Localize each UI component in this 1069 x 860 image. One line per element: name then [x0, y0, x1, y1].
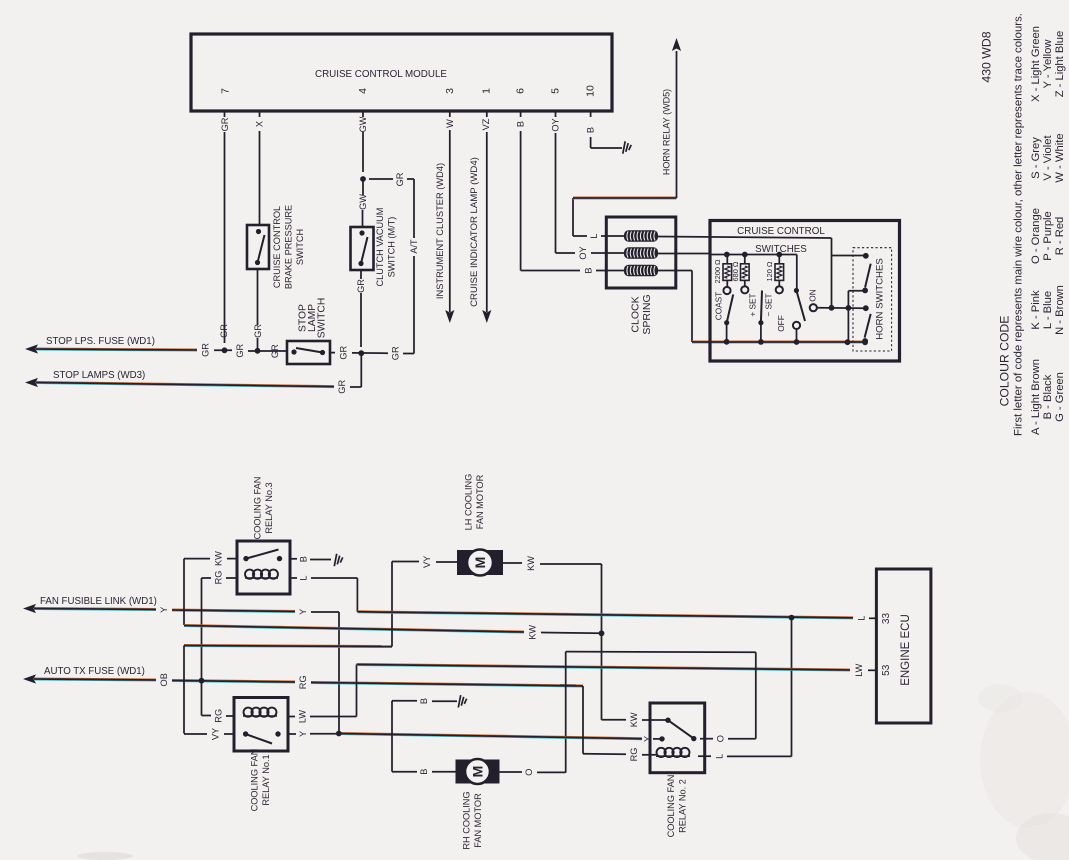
- colour code entry B: [1042, 374, 1054, 419]
- svg-text:OY: OY: [551, 118, 561, 131]
- clock spring box: [606, 217, 676, 288]
- svg-text:Y - Yellow: Y - Yellow: [1042, 39, 1054, 89]
- smudge bottom left: [77, 852, 133, 860]
- LH cooling fan motor M1: [457, 550, 503, 576]
- wire Y relay2 left: [653, 738, 662, 740]
- svg-text:SWITCH (M/T): SWITCH (M/T): [386, 217, 396, 278]
- resistor 120 ohm: [765, 255, 784, 282]
- svg-text:First letter of code represent: First letter of code represents main wir…: [1013, 13, 1025, 436]
- svg-text:LW: LW: [854, 663, 864, 676]
- svg-text:Y: Y: [643, 736, 653, 742]
- svg-text:RG: RG: [214, 709, 224, 723]
- svg-text:N - Brown: N - Brown: [1054, 285, 1066, 335]
- RH cooling fan motor M2: [456, 759, 500, 784]
- svg-text:L: L: [715, 754, 725, 759]
- svg-text:7: 7: [220, 88, 232, 94]
- module pin 3: [444, 88, 456, 94]
- junction node stop line clutch wire: [358, 350, 364, 356]
- svg-text:GW: GW: [358, 194, 368, 210]
- label cooling fan relay No.3: [252, 477, 274, 540]
- node top rail R1: [724, 252, 730, 258]
- wire L branch to relay2 coil: [698, 618, 792, 759]
- wire on line: [817, 307, 866, 310]
- wire LW relay1 coil right: [288, 710, 357, 723]
- wire OY row top rail: [658, 254, 797, 291]
- ground relay3: [334, 554, 342, 566]
- svg-text:B: B: [586, 127, 596, 133]
- svg-text:B: B: [419, 769, 429, 775]
- label instrument cluster: [435, 163, 445, 299]
- label clutch vacuum switch: [375, 208, 397, 287]
- wire B RH motor to ground branch: [392, 701, 456, 775]
- svg-text:FAN MOTOR: FAN MOTOR: [475, 474, 485, 529]
- svg-text:RELAY No.1: RELAY No.1: [261, 754, 271, 805]
- wire Y line relay1 to relay2: [336, 731, 642, 740]
- svg-text:GR: GR: [219, 324, 229, 338]
- svg-text:VY: VY: [211, 728, 221, 740]
- svg-text:GR: GR: [235, 343, 245, 357]
- svg-text:L: L: [589, 233, 599, 238]
- colour code entry O: [1030, 208, 1042, 264]
- wire GW from pin 4: [358, 111, 368, 172]
- svg-text:VY: VY: [422, 556, 432, 568]
- node bottom rail set: [758, 339, 764, 345]
- cruise control switches box: [710, 221, 900, 362]
- wire B from pin 6 to clock spring: [516, 111, 624, 274]
- wire VY to LH motor: [392, 556, 457, 568]
- colour code entry A: [1030, 359, 1042, 435]
- svg-text:O - Orange: O - Orange: [1030, 208, 1042, 264]
- off switch: [793, 288, 805, 342]
- svg-text:GW: GW: [358, 116, 368, 132]
- wire below brake switch: [253, 269, 263, 351]
- svg-text:CLOCK: CLOCK: [629, 296, 641, 332]
- colour code entry W: [1054, 133, 1066, 182]
- svg-text:COAST: COAST: [714, 292, 724, 321]
- colour code entry Y: [1042, 39, 1054, 89]
- set switch blade: [758, 291, 763, 343]
- svg-text:GR: GR: [337, 380, 347, 394]
- svg-text:Y: Y: [298, 609, 308, 615]
- svg-text:3: 3: [444, 88, 456, 94]
- svg-text:KW: KW: [629, 712, 639, 727]
- label stop lamp switch: [297, 298, 327, 339]
- set switch terminal 680: [741, 280, 748, 293]
- svg-text:X: X: [255, 121, 265, 127]
- wire RG relay1 coil left: [202, 709, 235, 723]
- wire KW line relay3 to junction: [184, 624, 602, 639]
- svg-text:B: B: [299, 556, 309, 562]
- horn switch 2: [862, 314, 871, 344]
- wire KW relay3 left: [184, 551, 237, 625]
- label engine ecu: [900, 614, 912, 686]
- cruise control module U1: [191, 34, 612, 111]
- svg-text:5: 5: [550, 88, 562, 94]
- svg-text:B: B: [419, 698, 429, 704]
- node bottom rail horn column: [845, 339, 851, 345]
- svg-text:B - Black: B - Black: [1042, 374, 1054, 419]
- svg-text:SWITCH: SWITCH: [295, 229, 305, 265]
- relay2 coil: [656, 748, 690, 757]
- ground for pin 10: [623, 141, 631, 153]
- svg-text:M: M: [470, 766, 486, 778]
- wire GR from pin 7: [220, 111, 230, 343]
- label Y relay2: [643, 736, 653, 742]
- label cruise control brake pressure switch: [272, 205, 305, 289]
- module pin 4: [357, 88, 369, 94]
- node on line at horn elbow: [846, 305, 852, 311]
- svg-text:HORN SWITCHES: HORN SWITCHES: [875, 258, 886, 340]
- svg-text:SWITCH: SWITCH: [317, 298, 328, 339]
- svg-text:− SET: − SET: [764, 293, 774, 316]
- svg-text:BRAKE PRESSURE: BRAKE PRESSURE: [284, 205, 294, 289]
- auto tx fuse line WD1: [23, 666, 583, 689]
- colour code entry Z: [1054, 31, 1066, 98]
- label GR lower pin7 wire: [219, 324, 229, 338]
- clock spring coil 3: [624, 265, 658, 277]
- clutch vacuum switch S2: [351, 227, 374, 270]
- svg-text:CRUISE CONTROL: CRUISE CONTROL: [737, 226, 825, 237]
- wire B relay3 right to ground: [290, 556, 331, 562]
- wire O from RH motor: [500, 769, 566, 776]
- svg-text:K - Pink: K - Pink: [1030, 290, 1042, 330]
- wire L relay3 coil right: [290, 575, 357, 611]
- svg-text:S - Grey: S - Grey: [1030, 137, 1042, 179]
- ground RH branch: [458, 695, 466, 707]
- colour code entry L: [1042, 291, 1054, 329]
- svg-text:GR: GR: [395, 172, 405, 186]
- svg-text:OY: OY: [578, 246, 588, 259]
- svg-text:430 WD8: 430 WD8: [980, 31, 994, 82]
- label off: [776, 315, 786, 332]
- svg-text:FAN FUSIBLE LINK (WD1): FAN FUSIBLE LINK (WD1): [40, 596, 157, 607]
- svg-text:L: L: [299, 575, 309, 580]
- svg-text:OFF: OFF: [776, 315, 786, 332]
- node horn switch 2 top: [863, 305, 869, 311]
- instrument cluster arrow W: [445, 111, 455, 323]
- cooling fan relay No.1 box K1: [234, 698, 288, 752]
- label RH cooling fan motor: [461, 791, 483, 849]
- clock spring coil 1: [624, 230, 658, 242]
- svg-text:53: 53: [881, 664, 892, 676]
- wire L clock spring to horn relay: [573, 197, 677, 239]
- svg-text:ENGINE ECU: ENGINE ECU: [900, 614, 912, 686]
- svg-text:KW: KW: [214, 551, 224, 566]
- label horn relay: [662, 89, 672, 175]
- module pin 5: [550, 88, 562, 94]
- svg-text:Y: Y: [159, 607, 169, 613]
- svg-text:RG: RG: [214, 571, 224, 585]
- title cruise control switches: [737, 226, 825, 255]
- cruise indicator lamp arrow VZ: [481, 111, 491, 323]
- label cooling fan relay No.1: [249, 749, 271, 812]
- relay3 coil: [245, 570, 278, 579]
- svg-text:LW: LW: [298, 710, 308, 723]
- wire to horn switch 1: [832, 253, 869, 259]
- svg-text:SPRING: SPRING: [641, 294, 653, 334]
- label horn switches: [875, 258, 886, 340]
- svg-text:X - Light Green: X - Light Green: [1030, 26, 1042, 102]
- relay1 switch: [243, 731, 281, 743]
- wire Y relay1 right: [288, 731, 339, 737]
- junction node on stop line at brake switch wire: [255, 348, 261, 354]
- clock spring coil 2: [624, 247, 658, 259]
- svg-text:GR: GR: [220, 117, 230, 131]
- wire B pin 10 to ground: [586, 111, 622, 148]
- label cooling fan relay No.2: [666, 775, 688, 838]
- wire RG column relay3 to relay1: [201, 578, 203, 716]
- label +set: [748, 293, 758, 316]
- svg-text:KW: KW: [528, 625, 538, 640]
- svg-text:G - Green: G - Green: [1054, 372, 1066, 422]
- svg-text:GR: GR: [201, 343, 211, 357]
- svg-text:P - Purple: P - Purple: [1042, 211, 1054, 261]
- svg-text:L: L: [857, 616, 867, 621]
- svg-text:CRUISE CONTROL: CRUISE CONTROL: [272, 206, 282, 288]
- svg-text:L - Blue: L - Blue: [1042, 291, 1054, 329]
- colour code heading: [998, 316, 1012, 407]
- svg-text:R - Red: R - Red: [1054, 217, 1066, 256]
- svg-text:OB: OB: [159, 673, 169, 686]
- svg-text:GR: GR: [339, 345, 349, 359]
- svg-text:V - Violet: V - Violet: [1042, 135, 1054, 181]
- svg-text:COOLING FAN: COOLING FAN: [252, 477, 262, 540]
- junction GW node: [360, 176, 366, 182]
- colour code entry R: [1054, 217, 1066, 256]
- module pin 7: [220, 88, 232, 94]
- module pin 6: [515, 88, 527, 94]
- node top rail R2: [742, 252, 748, 258]
- svg-text:A - Light Brown: A - Light Brown: [1030, 359, 1042, 435]
- svg-text:CLUTCH VACUUM: CLUTCH VACUUM: [375, 208, 385, 287]
- colour code entry V: [1042, 135, 1054, 181]
- relay3 switch: [243, 550, 282, 562]
- wire RG relay3 coil left: [202, 571, 238, 585]
- wire B ground branch top: [392, 698, 457, 704]
- junction node on stop line at GR wire: [222, 347, 228, 353]
- coast switch terminal: [723, 280, 730, 294]
- svg-text:6: 6: [515, 88, 527, 94]
- label 430 WD8: [980, 31, 994, 82]
- wire O line RH motor to relay2: [566, 652, 756, 773]
- relay1 coil: [243, 708, 277, 717]
- svg-text:COOLING FAN: COOLING FAN: [249, 749, 259, 812]
- svg-text:INSTRUMENT CLUSTER (WD4): INSTRUMENT CLUSTER (WD4): [435, 163, 445, 299]
- svg-text:RG: RG: [629, 748, 639, 762]
- relay2 switch: [659, 718, 696, 742]
- svg-text:GR: GR: [391, 346, 401, 360]
- wire LW line to engine ecu: [357, 663, 877, 716]
- resistor 680 ohm: [731, 255, 749, 282]
- svg-text:O: O: [524, 769, 534, 776]
- wire OY from pin 5 to clock spring: [551, 111, 625, 260]
- coast switch blade: [724, 295, 733, 343]
- svg-text:COOLING FAN: COOLING FAN: [666, 775, 676, 838]
- wire X from module: [255, 111, 265, 225]
- stop lps fuse feed line WD1: [25, 336, 414, 360]
- texture bottom right: [978, 684, 1069, 860]
- svg-text:W: W: [445, 119, 455, 128]
- colour code entry G: [1054, 372, 1066, 422]
- wire L line to engine ecu: [357, 611, 876, 621]
- svg-text:W - White: W - White: [1054, 133, 1066, 182]
- colour code entry K: [1030, 290, 1042, 330]
- label clock spring: [629, 294, 653, 334]
- module pin 10: [585, 85, 597, 97]
- svg-text:COLOUR CODE: COLOUR CODE: [998, 316, 1012, 407]
- svg-text:RELAY No. 2: RELAY No. 2: [677, 779, 687, 833]
- label -set: [764, 293, 774, 316]
- wire KW relay2 left: [602, 712, 669, 727]
- svg-text:RH COOLING: RH COOLING: [461, 791, 471, 849]
- svg-text:CRUISE INDICATOR LAMP (WD4): CRUISE INDICATOR LAMP (WD4): [469, 157, 480, 307]
- junction KW node: [599, 630, 605, 636]
- wire horn switch 1 pole: [848, 291, 865, 342]
- svg-text:HORN RELAY (WD5): HORN RELAY (WD5): [662, 89, 672, 175]
- svg-text:33: 33: [881, 613, 892, 625]
- colour code subtitle: [1013, 13, 1025, 436]
- stop lamps line WD3: [25, 353, 361, 393]
- wire B row to bottom rail: [658, 271, 865, 344]
- svg-text:GR: GR: [270, 344, 280, 358]
- wire VY relay1 left: [184, 728, 234, 740]
- junction L node: [789, 615, 795, 621]
- colour code entry N: [1054, 285, 1066, 335]
- cooling fan relay No.3 box K3: [237, 541, 290, 594]
- junction auto tx at RG column: [199, 678, 205, 684]
- svg-text:VZ: VZ: [481, 118, 491, 130]
- svg-text:680 Ω: 680 Ω: [731, 261, 740, 281]
- node bottom rail off: [794, 339, 800, 345]
- set switch terminal 120: [776, 280, 783, 293]
- node on line at L column: [829, 305, 835, 311]
- wire VY line: [184, 562, 392, 734]
- colour code entry P: [1042, 211, 1054, 261]
- wire RG relay2 coil left: [560, 685, 656, 761]
- cruise control brake pressure switch S1: [247, 225, 269, 269]
- engine ecu box U2: [876, 569, 931, 723]
- svg-text:KW: KW: [526, 556, 536, 571]
- svg-text:B: B: [584, 267, 594, 273]
- svg-text:FAN MOTOR: FAN MOTOR: [473, 793, 483, 848]
- svg-text:Y: Y: [298, 731, 308, 737]
- ecu pin 53: [881, 664, 892, 676]
- svg-text:GR: GR: [253, 324, 263, 338]
- svg-text:RELAY No.3: RELAY No.3: [264, 482, 274, 533]
- stop lamp switch S3: [287, 341, 330, 364]
- resistor 2200 ohm: [713, 255, 732, 284]
- wire GR below clutch switch: [356, 270, 366, 347]
- horn relay arrow WD5: [672, 38, 681, 198]
- node bottom rail end: [862, 339, 868, 345]
- ecu pin 33: [881, 613, 892, 625]
- node top rail R3: [776, 252, 782, 258]
- horn switch 1: [862, 264, 871, 294]
- svg-text:STOP LPS. FUSE (WD1): STOP LPS. FUSE (WD1): [46, 336, 155, 347]
- svg-text:4: 4: [357, 88, 369, 94]
- svg-text:Z - Light Blue: Z - Light Blue: [1054, 31, 1066, 98]
- svg-text:GR: GR: [356, 279, 366, 293]
- node bottom rail coast: [724, 339, 730, 345]
- horn switches dashed box: [853, 248, 892, 351]
- svg-text:O: O: [716, 735, 726, 742]
- svg-text:M: M: [472, 557, 488, 569]
- wire GW to clutch switch: [358, 179, 368, 227]
- svg-text:2200 Ω: 2200 Ω: [713, 259, 722, 283]
- cooling fan relay No.2 box K2: [650, 703, 705, 773]
- svg-text:RG: RG: [298, 675, 308, 689]
- svg-text:CRUISE CONTROL MODULE: CRUISE CONTROL MODULE: [315, 69, 447, 80]
- svg-text:120 Ω: 120 Ω: [765, 261, 774, 281]
- svg-text:1: 1: [481, 88, 493, 94]
- svg-text:ON: ON: [808, 289, 818, 301]
- svg-text:STOP LAMPS (WD3): STOP LAMPS (WD3): [53, 370, 145, 381]
- colour code entry X: [1030, 26, 1042, 102]
- wire KW from LH motor: [503, 556, 602, 720]
- module pin 1: [481, 88, 493, 94]
- wire L row to ON switch column: [658, 237, 832, 308]
- colour code entry S: [1030, 137, 1042, 179]
- svg-text:10: 10: [585, 85, 597, 97]
- svg-text:LH COOLING: LH COOLING: [463, 474, 473, 531]
- label cruise indicator lamp: [469, 157, 480, 307]
- on switch contact: [808, 289, 818, 311]
- svg-text:+ SET: + SET: [748, 293, 758, 316]
- wire A/T branch: [369, 172, 419, 353]
- svg-text:AUTO TX FUSE (WD1): AUTO TX FUSE (WD1): [44, 666, 145, 677]
- label coast: [714, 292, 724, 321]
- fan fusible link line WD1: [23, 596, 339, 734]
- svg-text:B: B: [516, 121, 526, 127]
- label LH cooling fan motor: [463, 474, 485, 531]
- svg-text:A/T: A/T: [409, 239, 419, 254]
